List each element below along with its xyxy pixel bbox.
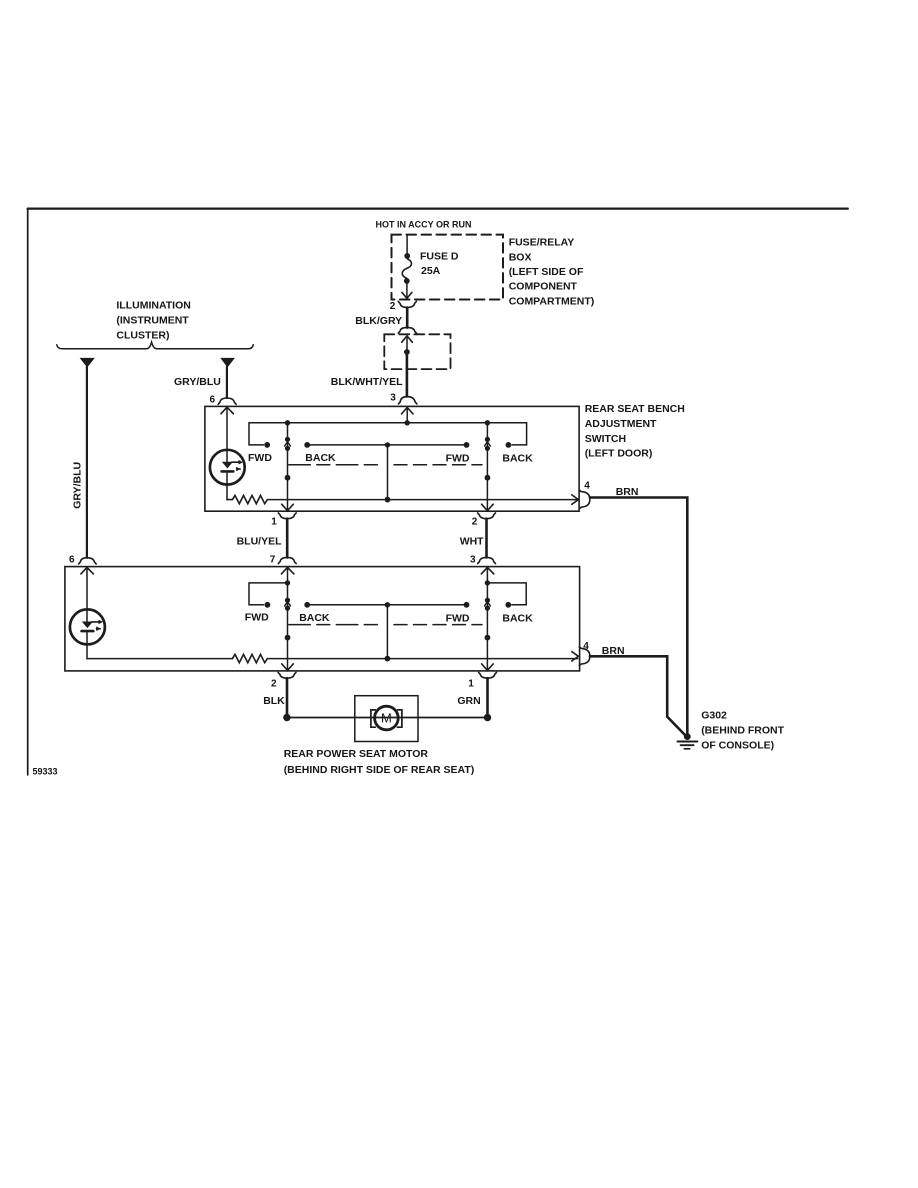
motor wire end dot left: [283, 714, 290, 721]
wire WHT: [485, 519, 488, 558]
switch 2 BACK contact dot left: [304, 602, 310, 608]
switch 2 mechanical dashed link: [289, 624, 381, 626]
svg-text:REAR SEAT BENCH: REAR SEAT BENCH: [585, 403, 685, 415]
illumination arrow left: [80, 358, 95, 368]
motor wire end dot right: [484, 714, 491, 721]
svg-text:BACK: BACK: [502, 453, 533, 465]
switch 1 resistor: [227, 495, 267, 503]
connector plug switch 2 pin 3: [478, 557, 496, 563]
fuse value label: [420, 250, 459, 277]
switch 2 center branch rail dot: [385, 656, 391, 662]
svg-text:2: 2: [390, 301, 396, 312]
svg-text:1: 1: [468, 678, 474, 689]
switch 2 FWD contact dot right: [464, 602, 470, 608]
switch 1 center branch wire: [387, 445, 389, 500]
switch 1 pin 3 entry wire with up arrow: [402, 407, 414, 422]
switch 2 right wiper: [482, 583, 494, 671]
switch 1 top rail: [249, 422, 527, 424]
svg-text:1: 1: [271, 517, 277, 528]
connector plug above inline connector: [398, 327, 416, 333]
svg-text:HOT IN ACCY OR RUN: HOT IN ACCY OR RUN: [376, 220, 472, 230]
switch 2 pin 4 arrow out: [572, 652, 579, 661]
svg-text:(BEHIND FRONT: (BEHIND FRONT: [701, 725, 784, 737]
fuse D 25A symbol: [402, 253, 411, 284]
switch 1 label text: [585, 403, 685, 459]
wire BRN upper: [590, 498, 687, 734]
svg-text:(BEHIND RIGHT SIDE OF REAR SEA: (BEHIND RIGHT SIDE OF REAR SEAT): [284, 764, 475, 776]
switch 1 FWD contact dot right: [464, 442, 470, 448]
svg-text:7: 7: [270, 555, 276, 566]
svg-text:BACK: BACK: [305, 452, 336, 464]
switch 1 top rail junction dots: [285, 420, 490, 425]
ground G302 symbol: [678, 733, 698, 749]
wire entering inline connector with up arrow: [402, 336, 413, 350]
wire GRY/BLU right short: [226, 367, 228, 398]
wire BLK/WHT/YEL: [406, 352, 409, 396]
svg-text:6: 6: [69, 555, 75, 566]
switch 2 left contact hook FWD: [249, 583, 288, 605]
connector socket below fuse box: [398, 301, 416, 307]
svg-text:BLK/GRY: BLK/GRY: [355, 315, 402, 327]
svg-text:FWD: FWD: [446, 453, 470, 465]
connector plug switch 2 pin 7: [278, 557, 296, 563]
wire BRN lower: [590, 656, 685, 735]
switch 2 illumination bulb: [70, 609, 105, 658]
motor label text: [284, 748, 475, 776]
svg-text:BRN: BRN: [616, 486, 639, 498]
switch 2 bottom rail left segment: [87, 658, 232, 660]
svg-text:25A: 25A: [421, 265, 441, 277]
switch 2 bottom rail: [267, 658, 577, 660]
connector plug at switch 1 pin 3: [398, 397, 417, 404]
switch 2 left junction dot: [285, 580, 290, 585]
svg-text:ADJUSTMENT: ADJUSTMENT: [585, 418, 657, 430]
switch 2 BACK contact dot right: [505, 602, 511, 608]
svg-text:GRY/BLU: GRY/BLU: [72, 462, 84, 509]
svg-text:COMPONENT: COMPONENT: [509, 281, 578, 293]
svg-text:(LEFT SIDE OF: (LEFT SIDE OF: [509, 266, 584, 278]
connector socket switch 1 pin 2: [478, 513, 496, 519]
svg-text:FWD: FWD: [245, 612, 269, 624]
svg-text:BRN: BRN: [602, 645, 625, 657]
illumination arrow right: [220, 358, 235, 368]
svg-text:FUSE D: FUSE D: [420, 250, 459, 262]
switch 1 pin 4 arrow out: [572, 495, 579, 504]
svg-text:CLUSTER): CLUSTER): [116, 329, 169, 341]
illumination brace: [57, 342, 253, 349]
svg-text:3: 3: [390, 393, 396, 404]
switch 1 BACK contact dot left: [304, 442, 310, 448]
connector socket switch 2 pin 2: [278, 672, 296, 678]
svg-text:(INSTRUMENT: (INSTRUMENT: [116, 314, 189, 326]
motor M1 symbol: [371, 706, 402, 730]
switch 1 contact row line: [307, 444, 466, 446]
switch 1 left wiper: [282, 423, 294, 511]
switch 1 box outline: [205, 406, 579, 511]
svg-text:FWD: FWD: [446, 612, 470, 624]
switch 1 left contact hook FWD: [249, 423, 264, 445]
connector socket switch 2 pin 1: [479, 672, 497, 678]
switch 2 right junction dot: [485, 580, 490, 585]
connector socket switch 1 pin 4: [579, 490, 590, 509]
ground G302 label: [701, 710, 784, 752]
motor feed wire horizontal: [287, 717, 488, 719]
svg-text:WHT: WHT: [460, 535, 484, 547]
switch 1 pin 6 entry wire with up arrow: [221, 407, 234, 450]
switch 1 mechanical dashed link: [289, 464, 381, 466]
switch 2 center branch wire: [386, 605, 388, 659]
inline connector dashed box: [384, 334, 450, 369]
svg-text:2: 2: [271, 678, 277, 689]
svg-text:BLK: BLK: [263, 695, 285, 707]
svg-text:FWD: FWD: [248, 452, 272, 464]
switch 2 position labels: [245, 612, 533, 625]
fuse/relay box label text: [509, 237, 595, 308]
svg-text:59333: 59333: [33, 767, 58, 777]
svg-text:3: 3: [470, 555, 476, 566]
illumination header text: [116, 300, 190, 342]
switch 1 position labels: [248, 452, 533, 465]
wire BLU/YEL: [286, 519, 289, 558]
switch 1 right wiper: [482, 423, 494, 511]
frame left border: [27, 209, 29, 775]
motor box outline: [355, 696, 418, 742]
wire GRN: [486, 678, 489, 717]
fuse/relay box dashed outline: [392, 235, 504, 300]
svg-text:BACK: BACK: [502, 612, 533, 624]
connector plug at switch 1 pin 6: [218, 398, 236, 404]
switch 2 center branch junction dot: [385, 602, 390, 607]
svg-text:(LEFT DOOR): (LEFT DOOR): [585, 448, 653, 460]
switch 2 pin 3 entry wire with up arrow: [481, 567, 494, 583]
wire BLK: [286, 678, 289, 717]
switch 1 FWD contact dot left: [264, 442, 270, 448]
svg-text:6: 6: [210, 395, 216, 406]
svg-text:2: 2: [472, 517, 478, 528]
switch 1 center branch rail dot: [385, 497, 391, 503]
frame top border: [28, 208, 848, 210]
switch 2 contact row line: [307, 604, 466, 606]
svg-text:OF CONSOLE): OF CONSOLE): [701, 739, 774, 751]
svg-text:REAR POWER SEAT MOTOR: REAR POWER SEAT MOTOR: [284, 748, 429, 760]
switch 2 pin 6 entry wire with up arrow: [81, 567, 94, 609]
switch 2 pin 7 entry wire with up arrow: [281, 567, 294, 583]
svg-text:G302: G302: [701, 710, 727, 722]
wire fuse output with down arrow: [402, 284, 412, 299]
switch 1 bottom rail: [267, 499, 577, 501]
switch 2 left wiper: [282, 583, 294, 671]
svg-text:FUSE/RELAY: FUSE/RELAY: [509, 237, 575, 249]
switch 1 illumination bulb: [210, 450, 245, 500]
switch 2 resistor: [232, 654, 267, 662]
svg-text:BACK: BACK: [299, 612, 330, 624]
svg-text:4: 4: [584, 481, 590, 492]
wire BLK/GRY: [406, 308, 409, 328]
wire GRY/BLU left long: [86, 367, 88, 558]
svg-text:ILLUMINATION: ILLUMINATION: [116, 300, 190, 312]
svg-text:M: M: [381, 711, 392, 726]
connector socket switch 2 pin 4: [579, 647, 590, 666]
wire from hot feed into fuse: [406, 235, 408, 254]
connector socket switch 1 pin 1: [278, 513, 296, 519]
switch 1 right contact hook BACK: [512, 423, 527, 445]
svg-text:SWITCH: SWITCH: [585, 433, 626, 445]
switch 2 box outline: [65, 567, 580, 671]
svg-text:GRY/BLU: GRY/BLU: [174, 376, 221, 388]
switch 2 right contact hook BACK: [487, 583, 526, 605]
svg-text:COMPARTMENT): COMPARTMENT): [509, 295, 595, 307]
svg-text:BLK/WHT/YEL: BLK/WHT/YEL: [331, 376, 403, 388]
switch 1 BACK contact dot right: [506, 442, 512, 448]
svg-text:GRN: GRN: [457, 695, 480, 707]
svg-text:BOX: BOX: [509, 251, 532, 263]
inline connector junction dot: [404, 349, 410, 355]
connector plug switch 2 pin 6: [79, 558, 97, 564]
svg-text:BLU/YEL: BLU/YEL: [237, 535, 283, 547]
switch 2 FWD contact dot left: [265, 602, 271, 608]
switch 1 center branch junction dot: [385, 442, 390, 447]
